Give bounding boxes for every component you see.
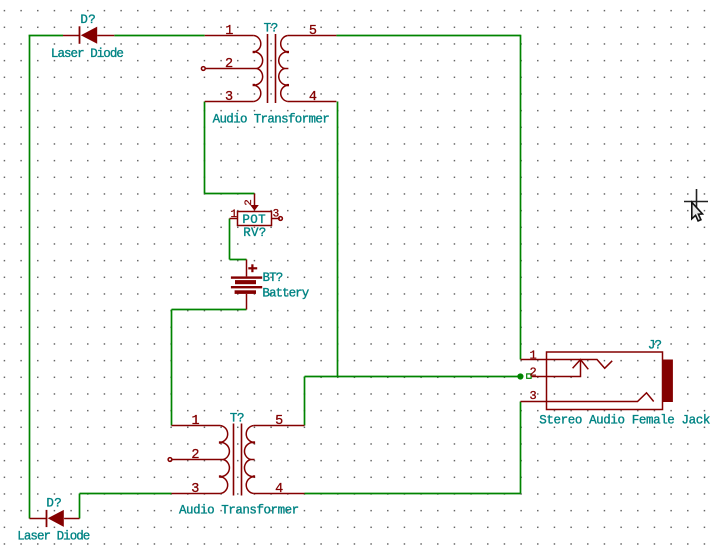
wire down to T2 pin5	[304, 377, 306, 426]
T1 pin 5 lead	[288, 35, 337, 37]
wire battery BT1 minus horizontal	[172, 309, 247, 311]
svg-text:Laser Diode: Laser Diode	[51, 47, 124, 61]
svg-text:3: 3	[191, 482, 199, 497]
battery BT1	[231, 260, 262, 310]
T2 pin 2 circle	[168, 458, 172, 462]
T2 left winding	[220, 426, 229, 494]
wire to POT RV1 pin2	[205, 193, 255, 195]
T1 pin 2 circle	[201, 67, 205, 71]
svg-text:3: 3	[225, 90, 233, 105]
svg-text:Battery: Battery	[262, 287, 309, 301]
svg-text:Audio Transformer: Audio Transformer	[179, 504, 299, 518]
svg-text:Laser Diode: Laser Diode	[17, 530, 90, 544]
J1 pin 3 contact	[547, 393, 654, 402]
svg-text:T?: T?	[264, 22, 278, 36]
T2 right winding	[244, 426, 253, 494]
J1 barrel	[663, 360, 673, 403]
svg-text:3: 3	[273, 209, 280, 221]
svg-text:1: 1	[231, 209, 238, 221]
wire T1 pin5 to top-right corner	[336, 35, 520, 37]
junction at jack J1 pin2	[517, 373, 523, 379]
svg-text:2: 2	[530, 365, 537, 379]
wire down to diode D2	[79, 494, 81, 519]
wire diode D1 to transformer T1 pin1	[114, 35, 204, 37]
J1 pin 2 contact	[547, 360, 581, 377]
svg-text:5: 5	[275, 414, 283, 429]
T2 pin 1 lead	[172, 425, 221, 427]
svg-text:2: 2	[191, 448, 199, 463]
stereo jack J1	[521, 352, 673, 410]
laser diode D2	[30, 510, 80, 527]
transformer T2	[168, 424, 304, 496]
svg-text:1: 1	[530, 349, 537, 363]
wire T1 pin4 down	[337, 102, 339, 377]
laser diode D1	[63, 26, 114, 44]
svg-text:1: 1	[225, 24, 233, 39]
T1 pin 1 lead	[205, 35, 254, 37]
wire right vertical to jack J1 pin1	[520, 35, 522, 360]
svg-text:J?: J?	[648, 339, 662, 353]
wire T2 pin3 left	[80, 493, 172, 495]
T1 pin 4 lead	[288, 101, 337, 103]
cursor arrow	[692, 202, 703, 221]
RV1 body	[238, 212, 272, 226]
RV1 pin 3 lead	[272, 218, 280, 220]
svg-text:1: 1	[192, 414, 200, 429]
svg-text:2: 2	[225, 57, 233, 72]
RV1 pin 2 lead and wiper arrow	[254, 194, 256, 206]
BT1 top lead	[246, 260, 248, 277]
potentiometer RV1	[230, 194, 283, 226]
J1 pin 2 lead	[531, 376, 547, 378]
T1 left winding	[254, 36, 263, 102]
BT1 plate long 1	[231, 276, 262, 278]
BT1 plus sign	[248, 267, 257, 269]
svg-text:4: 4	[275, 482, 283, 497]
T2 pin 5 lead	[254, 425, 305, 427]
svg-text:2: 2	[243, 199, 255, 205]
T1 pin 3 lead	[205, 101, 254, 103]
svg-text:D?: D?	[80, 13, 96, 27]
wire top-left to diode D1	[29, 35, 63, 37]
T1 core	[267, 34, 269, 103]
BT1 plate short 1	[235, 280, 256, 284]
T1 right winding	[279, 36, 288, 102]
svg-text:4: 4	[309, 90, 317, 105]
svg-text:5: 5	[309, 24, 317, 39]
wire T1 pin3 down	[204, 102, 206, 194]
svg-text:Stereo Audio Female Jack: Stereo Audio Female Jack	[539, 414, 710, 428]
T2 winding taps	[219, 441, 221, 443]
T2 pin 2 lead	[172, 459, 224, 461]
T1 pin 2 lead	[205, 68, 257, 70]
svg-text:Audio Transformer: Audio Transformer	[213, 113, 330, 127]
J1 pin 2 connection square	[527, 374, 531, 378]
wire jack J1 pin2 horizontal	[305, 376, 519, 378]
BT1 bottom lead	[246, 294, 248, 310]
T1 winding taps	[253, 51, 255, 53]
RV1 pin 1 lead	[230, 218, 238, 220]
cursor crosshair	[684, 189, 708, 213]
svg-text:D?: D?	[46, 496, 62, 510]
wire left vertical bus	[29, 36, 31, 519]
svg-text:T?: T?	[230, 412, 244, 426]
svg-text:3: 3	[530, 389, 537, 403]
T2 pin 4 lead	[254, 493, 305, 495]
wire POT RV1 pin1 down	[229, 219, 231, 260]
wire T2 pin4 to jack column	[305, 493, 521, 495]
BT1 plate short 2	[235, 290, 256, 294]
svg-text:RV?: RV?	[243, 226, 266, 240]
svg-text:POT: POT	[242, 213, 266, 227]
J1 pin 3 lead	[521, 401, 547, 403]
BT1 plate long 2	[231, 286, 262, 288]
T2 pin 3 lead	[172, 493, 221, 495]
svg-text:BT?: BT?	[263, 271, 283, 285]
J1 pin 1 lead	[521, 359, 547, 361]
J1 pin 1 contact	[547, 360, 613, 369]
wire down to T2 pin1	[171, 310, 173, 426]
wire jack J1 pin3 down	[520, 402, 522, 494]
wire to battery BT1 plus	[230, 259, 247, 261]
RV1 pin 3 circle	[279, 217, 283, 221]
T2 core	[233, 424, 235, 496]
transformer T1	[201, 34, 336, 103]
J1 body	[547, 352, 663, 410]
